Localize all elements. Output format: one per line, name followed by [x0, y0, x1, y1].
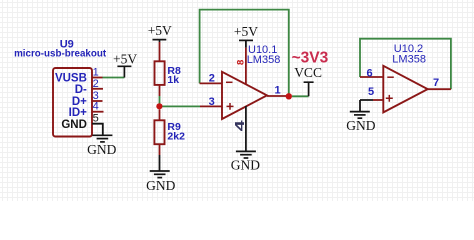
svg-text:micro-usb-breakout: micro-usb-breakout [14, 48, 107, 59]
svg-text:+5V: +5V [148, 23, 172, 38]
svg-text:VCC: VCC [294, 65, 322, 80]
svg-text:GND: GND [346, 118, 375, 133]
svg-text:7: 7 [433, 77, 439, 89]
svg-text:LM358: LM358 [247, 54, 281, 66]
svg-text:6: 6 [367, 68, 373, 80]
svg-text:5: 5 [368, 86, 374, 98]
svg-text:2: 2 [209, 73, 215, 85]
svg-text:8: 8 [236, 60, 247, 65]
svg-text:GND: GND [146, 178, 175, 193]
svg-text:1: 1 [275, 85, 281, 97]
svg-text:VUSB: VUSB [55, 73, 87, 85]
svg-text:ID+: ID+ [69, 107, 88, 119]
svg-text:3: 3 [209, 96, 215, 108]
svg-text:1k: 1k [167, 74, 179, 86]
svg-text:+5V: +5V [113, 52, 137, 67]
svg-text:GND: GND [87, 142, 116, 157]
svg-text:GND: GND [61, 119, 87, 131]
svg-text:+5V: +5V [234, 24, 258, 39]
svg-text:LM358: LM358 [392, 53, 426, 65]
svg-text:2k2: 2k2 [167, 131, 185, 143]
svg-text:GND: GND [231, 158, 260, 173]
svg-text:~3V3: ~3V3 [292, 49, 329, 66]
svg-text:4: 4 [232, 119, 247, 131]
svg-text:D-: D- [75, 84, 87, 96]
